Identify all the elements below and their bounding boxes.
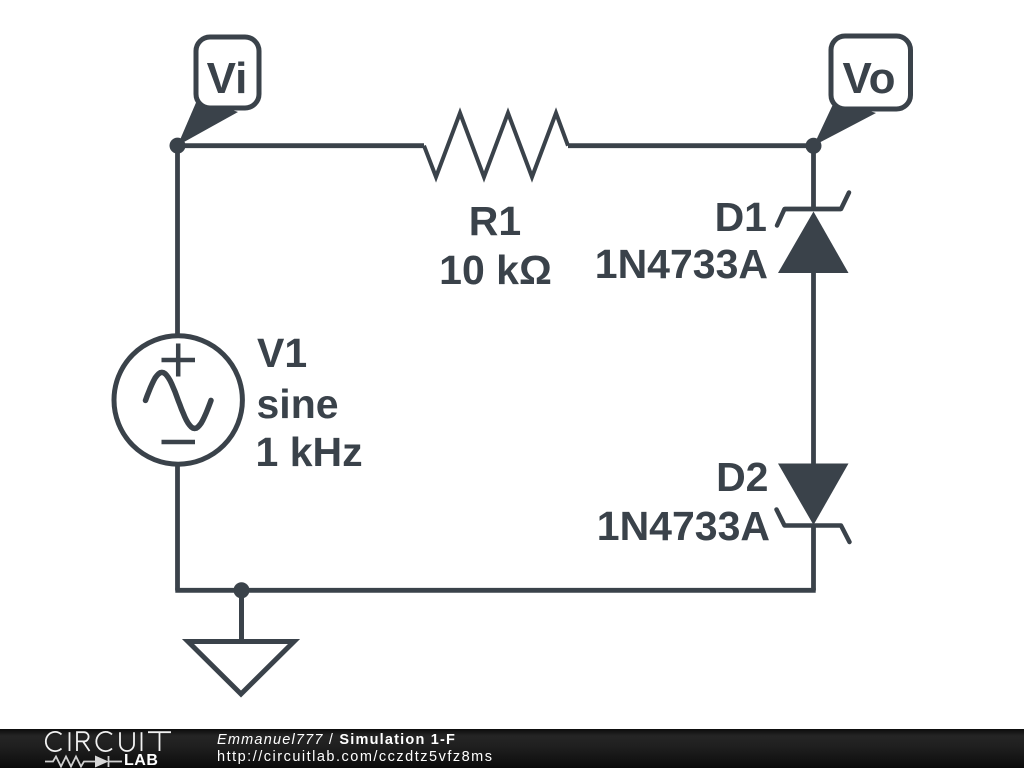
- svg-text:1 kHz: 1 kHz: [256, 429, 363, 475]
- node Vi junction dot: [170, 138, 186, 154]
- wire: resistor R1 right lead to node Vo: [568, 143, 814, 148]
- node Vo junction dot: [806, 138, 822, 154]
- V1 sine squiggle: [146, 372, 212, 428]
- svg-text:1N4733A: 1N4733A: [595, 241, 768, 287]
- svg-text:D1: D1: [715, 194, 767, 240]
- footer author/title line: [217, 732, 456, 748]
- zener diode D2: [777, 464, 850, 543]
- node Vo flag box: [831, 36, 911, 109]
- V1 minus sign: [162, 440, 196, 445]
- footer url line: [217, 749, 494, 765]
- CircuitLab logo: [0, 729, 200, 768]
- V1 plus sign: [162, 344, 196, 377]
- ground: [188, 590, 294, 694]
- zener diode D1: [777, 193, 849, 274]
- wire: node Vi down to V1 top terminal: [175, 144, 180, 337]
- ground junction dot: [234, 582, 250, 598]
- svg-text:sine: sine: [257, 381, 339, 427]
- voltage source V1 circle: [114, 336, 242, 464]
- wire: node Vo down to D1 cathode: [811, 146, 816, 209]
- node Vo flag tail: [814, 100, 877, 146]
- node Vi flag box: [196, 37, 259, 108]
- node Vi flag tail: [178, 98, 239, 146]
- svg-text:LAB: LAB: [124, 752, 158, 768]
- svg-text:D2: D2: [716, 454, 768, 500]
- svg-text:V1: V1: [257, 330, 307, 376]
- svg-text:Vo: Vo: [843, 54, 896, 103]
- wire: V1 bottom terminal to bottom-left corner: [175, 463, 180, 591]
- wire: D1 anode to D2 anode: [811, 272, 816, 465]
- svg-text:Vi: Vi: [207, 54, 248, 103]
- svg-text:1N4733A: 1N4733A: [597, 503, 770, 549]
- wire: node Vi to resistor R1 left lead: [178, 143, 425, 148]
- footer bar: [0, 729, 1024, 768]
- svg-text:10 kΩ: 10 kΩ: [439, 247, 552, 293]
- wire: D2 cathode to bottom-right corner: [811, 525, 816, 591]
- svg-text:R1: R1: [469, 198, 521, 244]
- wire: bottom ground rail: [175, 588, 815, 593]
- resistor R1: [424, 113, 568, 177]
